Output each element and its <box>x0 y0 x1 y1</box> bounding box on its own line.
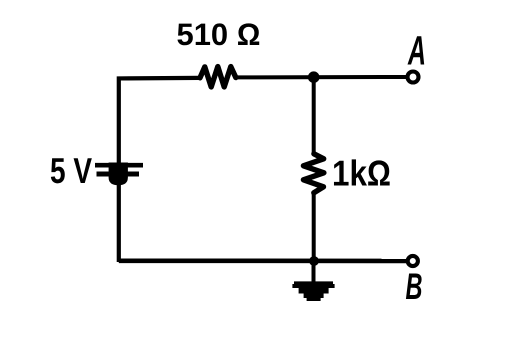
junction dot bottom (node at ground) <box>309 256 319 266</box>
wire right branch upper (node A junction down to R2) <box>312 77 316 154</box>
svg-text:1kΩ: 1kΩ <box>332 153 391 194</box>
junction dot top (node at R1/R2/A) <box>308 71 320 83</box>
svg-text:5 V: 5 V <box>50 150 92 191</box>
ground stub wire <box>312 261 316 282</box>
battery B1: center blob <box>109 163 128 186</box>
terminal B (open circle) <box>408 256 418 266</box>
battery B1: second plate <box>97 172 140 177</box>
terminal A (open circle) <box>408 72 419 83</box>
svg-text:B: B <box>406 266 423 307</box>
resistor R2 1k ohm (vertical zigzag) <box>303 154 324 193</box>
bottom wire <box>119 258 407 263</box>
ground symbol (stepped filled triangle) <box>292 281 334 301</box>
svg-text:510 Ω: 510 Ω <box>177 17 261 52</box>
svg-text:A: A <box>407 28 426 74</box>
battery B1: top plate <box>95 163 143 168</box>
wire right branch lower (R2 down to bottom wire) <box>312 193 316 262</box>
resistor R1 510 ohm (horizontal zigzag) <box>200 67 236 87</box>
wire top-left to resistor R1 <box>119 78 200 262</box>
wire from R1 to node A junction and terminal A <box>236 75 407 79</box>
